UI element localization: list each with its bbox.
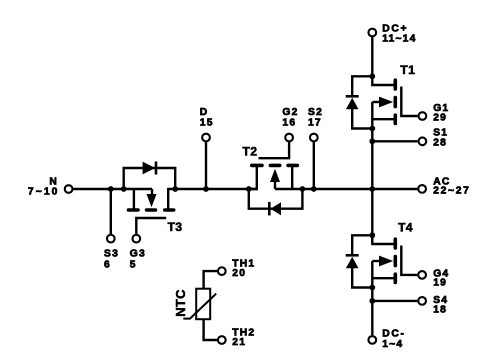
terminal S1 [419,137,427,145]
wire T2 diode loop [249,189,303,209]
wire T1 gate to G1 [401,87,417,117]
node S4 junction [369,298,375,304]
label DC- 1~4 [382,329,405,350]
svg-text:16: 16 [282,118,296,129]
svg-text:15: 15 [200,118,214,129]
label AC 22~27 [433,176,470,196]
terminal DC- [368,336,376,344]
wire S1 stub [372,140,417,142]
wire T4 drain to bar [372,235,395,244]
wire T1 drain to bar [372,76,395,85]
svg-text:1~4: 1~4 [382,339,403,350]
wire D drop [205,142,207,190]
wire T2 source bar connector [291,167,293,190]
node T1 source junction [369,126,375,132]
wire S2 drop [313,142,315,190]
label S2 17 [308,107,323,129]
wire T4 gate to G4 [401,246,417,275]
svg-text:22~27: 22~27 [433,186,470,197]
terminal G4 [418,271,426,279]
terminal TH2 [218,336,226,344]
label TH2 21 [232,328,255,348]
node S1 junction [369,138,375,144]
wire T3 body arrow shaft [151,189,153,197]
label G4 19 [433,268,449,288]
wire T4 arrow shaft [372,260,381,262]
label G3 5 [130,248,146,270]
label DC+ 11~14 [382,24,416,45]
diode D2 (T2 body diode) [270,202,281,215]
svg-text:S3: S3 [104,248,119,259]
label S1 28 [433,128,448,149]
svg-text:T2: T2 [242,145,257,159]
svg-text:19: 19 [433,278,447,289]
node T4 drain junction [369,232,375,238]
node D junction [203,186,209,192]
terminal N [65,185,73,193]
wire T3 gate to G3 [136,218,166,234]
wire T1 source down [371,119,373,189]
svg-text:5: 5 [130,259,137,270]
wire main bus left [73,188,152,190]
terminal S2 [310,134,318,142]
wire T1 diode branch top [352,76,372,97]
transistor T4 channel bars [393,239,397,282]
terminal G2 [285,134,293,142]
terminal DC+ [368,29,376,37]
diode D4 (T4 body diode) [346,257,359,269]
label D 15 [200,107,214,129]
node T1 drain junction [369,73,375,79]
wire S3 drop [110,189,112,234]
svg-text:G2: G2 [282,107,298,118]
svg-text:T3: T3 [168,220,183,234]
wire T3 left bar connector [133,189,135,209]
wire bus T3right to T2left [175,188,257,190]
wire T4 diode branch bottom [352,268,372,288]
svg-text:17: 17 [308,118,322,129]
svg-text:21: 21 [232,337,246,348]
wire T1 body-source line [372,102,395,119]
label S4 18 [433,295,448,316]
svg-text:11~14: 11~14 [382,34,416,45]
node AC junction [369,186,375,192]
transistor T1 channel bars [393,80,397,123]
wire T1 diode branch bottom [352,109,372,129]
terminal G3 [132,235,140,243]
svg-text:6: 6 [104,259,111,270]
wire bus T2 body to S2 to AC [275,188,417,190]
node T3 left junction [121,186,127,192]
wire T1 arrow shaft [372,101,381,103]
terminal AC [418,185,426,193]
wire T4 source to DC- [371,278,373,335]
node T4 source junction [369,285,375,291]
svg-text:18: 18 [433,305,447,316]
terminal S3 [107,235,115,243]
transistor T2 body arrow head [270,169,280,182]
label S3 6 [104,248,119,270]
wire T2 body arrow shaft [274,181,276,189]
wire T3 right bar connector [168,189,175,209]
wire T2 gate to G2 [259,142,290,159]
transistor T3 body arrow head [147,194,157,207]
terminal D [202,134,210,142]
node T2 diode return junction [300,186,306,192]
svg-text:7~10: 7~10 [28,187,60,198]
transistor T3 channel bars [129,208,174,212]
wire AC to T4 drain [371,189,373,244]
thermistor NTC strike line [183,294,216,319]
label G2 16 [282,107,298,129]
label N 7~10 [28,176,60,197]
svg-text:D: D [200,107,209,118]
diode D1 (T1 body diode) [346,98,359,110]
node T3 right junction [172,186,178,192]
wire T4 diode branch top [352,235,372,256]
svg-text:29: 29 [433,113,447,124]
svg-text:T4: T4 [398,221,413,235]
transistor T2 channel bars [252,164,297,168]
svg-text:20: 20 [232,268,246,279]
label G1 29 [433,103,449,124]
terminal G1 [419,112,427,120]
wire NTC box to TH2 [204,319,217,340]
node S2 junction [311,186,317,192]
wire T3 diode branch [124,168,176,189]
svg-text:T1: T1 [400,63,415,77]
wire TH1 to NTC box [204,271,217,289]
terminal circles [65,29,427,344]
wire DC+ to T1 drain [371,37,373,76]
wire T4 body-source line [372,261,395,278]
diode D3 (T3 body diode) [143,162,156,175]
node T2 left junction [246,186,252,192]
svg-text:S2: S2 [308,107,323,118]
svg-text:G3: G3 [130,248,146,259]
transistor T4 body arrow head [379,256,393,267]
label TH1 20 [232,259,255,279]
svg-text:NTC: NTC [173,289,188,317]
terminal TH1 [218,267,226,275]
svg-text:28: 28 [433,138,447,149]
wire T2 drain connector [249,167,257,190]
thermistor NTC body [196,289,210,320]
transistor T1 body arrow head [379,97,393,108]
wire S4 stub [372,300,417,302]
node S3 junction [108,186,114,192]
terminal S4 [418,297,426,305]
